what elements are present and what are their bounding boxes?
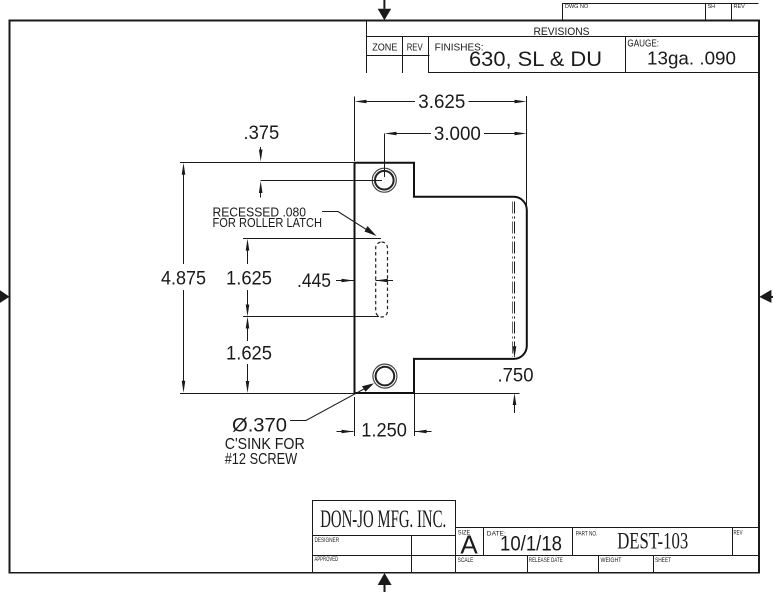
svg-text:Ø.370: Ø.370 bbox=[232, 415, 287, 437]
svg-text:.375: .375 bbox=[244, 122, 280, 144]
svg-text:#12 SCREW: #12 SCREW bbox=[225, 451, 298, 468]
svg-text:REV: REV bbox=[407, 42, 423, 54]
svg-text:SHEET: SHEET bbox=[655, 557, 671, 564]
svg-text:.750: .750 bbox=[498, 365, 534, 387]
svg-text:REVISIONS: REVISIONS bbox=[534, 26, 590, 38]
svg-text:A: A bbox=[460, 530, 478, 560]
svg-text:1.625: 1.625 bbox=[226, 343, 272, 365]
svg-text:1.625: 1.625 bbox=[226, 267, 272, 289]
svg-text:DEST-103: DEST-103 bbox=[617, 529, 688, 555]
svg-text:4.875: 4.875 bbox=[161, 267, 206, 289]
svg-text:APPROVED: APPROVED bbox=[315, 556, 339, 563]
svg-text:3.000: 3.000 bbox=[434, 123, 481, 145]
svg-text:FOR ROLLER LATCH: FOR ROLLER LATCH bbox=[213, 215, 323, 230]
svg-text:REV: REV bbox=[734, 530, 743, 537]
svg-text:REV: REV bbox=[734, 4, 746, 10]
svg-text:1.250: 1.250 bbox=[361, 420, 407, 442]
svg-text:WEIGHT: WEIGHT bbox=[601, 557, 622, 564]
svg-text:10/1/18: 10/1/18 bbox=[500, 533, 562, 556]
svg-text:ZONE: ZONE bbox=[372, 42, 397, 54]
svg-text:DESIGNER: DESIGNER bbox=[315, 537, 340, 544]
svg-text:630, SL & DU: 630, SL & DU bbox=[469, 48, 602, 71]
svg-text:13ga. .090: 13ga. .090 bbox=[647, 48, 736, 69]
svg-text:.445: .445 bbox=[297, 270, 331, 292]
svg-text:PART NO.: PART NO. bbox=[576, 530, 598, 537]
svg-text:DON-JO MFG. INC.: DON-JO MFG. INC. bbox=[320, 504, 446, 533]
svg-text:SH: SH bbox=[708, 4, 716, 10]
svg-text:3.625: 3.625 bbox=[418, 91, 465, 113]
svg-text:DWG NO: DWG NO bbox=[565, 4, 589, 10]
svg-text:RELEASE DATE: RELEASE DATE bbox=[529, 557, 563, 564]
